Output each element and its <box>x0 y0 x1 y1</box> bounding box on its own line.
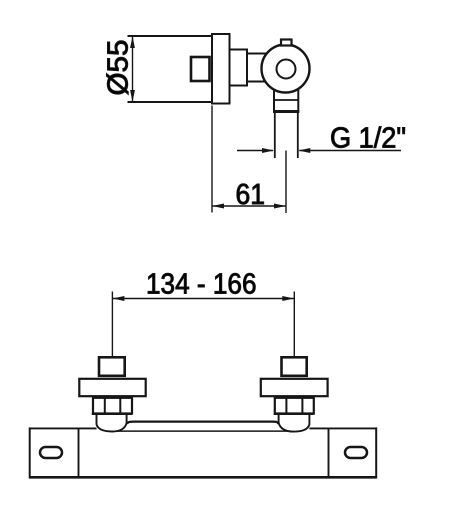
left hex nut <box>93 398 132 414</box>
svg-text:Ø55: Ø55 <box>103 40 135 96</box>
body bar top line segments <box>30 427 97 429</box>
elbow inner circle <box>277 60 296 79</box>
left escutcheon <box>79 379 145 396</box>
outlet collar sides <box>273 87 275 112</box>
left connector top <box>99 357 125 376</box>
extension line from flange (61) <box>211 106 213 213</box>
wall flange <box>212 34 230 104</box>
body outline top line <box>128 35 213 37</box>
arrowhead down <box>130 90 135 102</box>
dimension G 1/2 right line <box>299 150 401 152</box>
dimension line Ø55 <box>132 36 134 102</box>
body outline bottom line <box>128 101 213 103</box>
left hex nut bottom edge <box>92 412 132 415</box>
elbow body circle <box>262 45 310 93</box>
collar bottom thick line <box>273 110 299 113</box>
outlet pipe <box>274 113 276 158</box>
left union bell <box>97 413 127 432</box>
right slot <box>345 447 367 458</box>
body bar bottom line <box>30 476 377 479</box>
right escutcheon <box>261 379 328 396</box>
center line of outlet (61) <box>285 151 287 214</box>
right hex nut bottom edge <box>274 412 314 415</box>
right extension line <box>293 292 295 358</box>
left slot <box>40 447 62 458</box>
body bar top middle line <box>108 430 296 432</box>
left wall plate edges <box>29 427 31 478</box>
svg-text:61: 61 <box>236 179 266 211</box>
svg-text:G 1/2": G 1/2" <box>330 123 406 155</box>
dimension line 134-166 <box>112 298 294 300</box>
right connector top <box>282 357 307 376</box>
top plug <box>281 40 292 46</box>
dimension G 1/2 left line <box>237 150 273 152</box>
right wall plate edges <box>328 428 330 477</box>
right union bell <box>279 413 310 432</box>
flange stub <box>230 50 248 86</box>
cartridge knob <box>191 57 210 81</box>
dimension line 61 <box>212 205 286 207</box>
boss band between unions <box>127 422 278 424</box>
right hex nut <box>275 398 314 414</box>
arrowhead up <box>130 36 135 48</box>
connector stub <box>247 54 268 82</box>
collar mid line <box>274 99 298 101</box>
left extension line <box>111 292 113 358</box>
svg-text:134 - 166: 134 - 166 <box>146 268 257 300</box>
